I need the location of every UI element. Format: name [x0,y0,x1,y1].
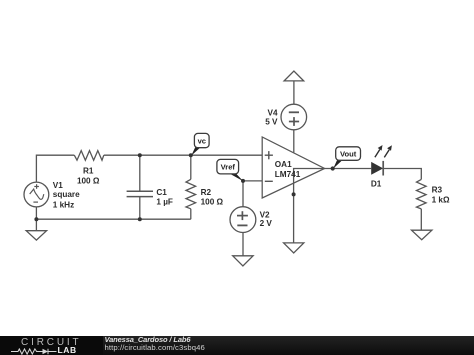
op-amp minus input symbol [265,180,273,182]
svg-text:LM741: LM741 [275,170,301,179]
wire Vref node to op-amp minus input [243,180,262,182]
svg-text:square: square [53,190,80,199]
svg-text:V4: V4 [267,108,277,117]
wire op-amp output to D1 anode [325,168,372,170]
logo schematic resistor and diode [11,348,58,355]
label C1 value [156,188,173,206]
label R1 value [77,167,100,186]
ground below V1 [26,219,46,240]
svg-text:1 µF: 1 µF [156,198,173,207]
logo word LAB [58,345,77,355]
footer bar [0,336,474,355]
wire bottom rail [36,218,190,220]
ground below V2 [233,233,253,267]
svg-text:D1: D1 [371,179,382,188]
op-amp plus input symbol [265,151,273,159]
label D1 [371,179,382,188]
node label Vout [333,147,360,169]
voltage source V2 [230,207,256,233]
node label Vref [217,159,243,181]
svg-text:vc: vc [198,136,206,145]
svg-text:R2: R2 [201,188,212,197]
wire Vref node down to V2 [242,181,244,207]
resistor R3 [417,179,427,230]
junction dot node vc [189,153,193,157]
svg-text:R3: R3 [432,186,443,195]
wire V1 top lead to top rail [36,155,74,182]
svg-text:100 Ω: 100 Ω [201,198,224,207]
junction dot V1 bottom [34,217,38,221]
junction dot op-amp V- pin [292,192,296,196]
node label vc [191,133,209,155]
voltage source V4 [281,104,307,130]
diode D1 LED [371,145,392,176]
junction dot C1 top [138,153,142,157]
voltage source V1 [24,182,49,219]
label V4 value [265,108,278,126]
op-amp OA1 triangle [262,137,324,198]
logo box [0,336,103,355]
svg-text:100 Ω: 100 Ω [77,176,100,185]
logo word CIRCUIT [21,337,82,348]
url text [105,343,205,352]
label V2 value [260,211,273,228]
label R3 value [432,186,450,205]
resistor R1 [74,151,104,161]
wire V4 to op-amp V+ pin [293,130,295,153]
svg-text:C1: C1 [156,188,167,197]
label R2 value [201,188,224,206]
resistor R2 [186,155,196,219]
svg-text:2 V: 2 V [260,219,273,228]
svg-text:V1: V1 [53,181,63,190]
wire D1 cathode to R3 [383,169,421,180]
label V1 value [53,181,80,210]
wire op-amp output corner to V- pin and ground [294,169,325,243]
svg-text:5 V: 5 V [265,117,278,126]
wire R1 to op-amp plus input (top rail) [104,154,262,156]
junction dot node Vout [331,166,335,170]
ground up-flipped at V4 top [284,71,304,104]
junction dot C1 bottom [138,217,142,221]
svg-text:R1: R1 [83,167,94,176]
capacitor C1 [127,155,153,219]
svg-text:Vout: Vout [340,149,357,158]
svg-text:1 kΩ: 1 kΩ [432,195,450,204]
svg-text:1 kHz: 1 kHz [53,201,74,210]
label op-amp OA1 LM741 [275,160,301,179]
svg-text:Vref: Vref [221,163,236,172]
junction dot node Vref [241,179,245,183]
credit text [105,335,191,344]
ground below op-amp [284,243,304,253]
svg-text:OA1: OA1 [275,160,292,169]
ground below R3 [412,230,432,240]
